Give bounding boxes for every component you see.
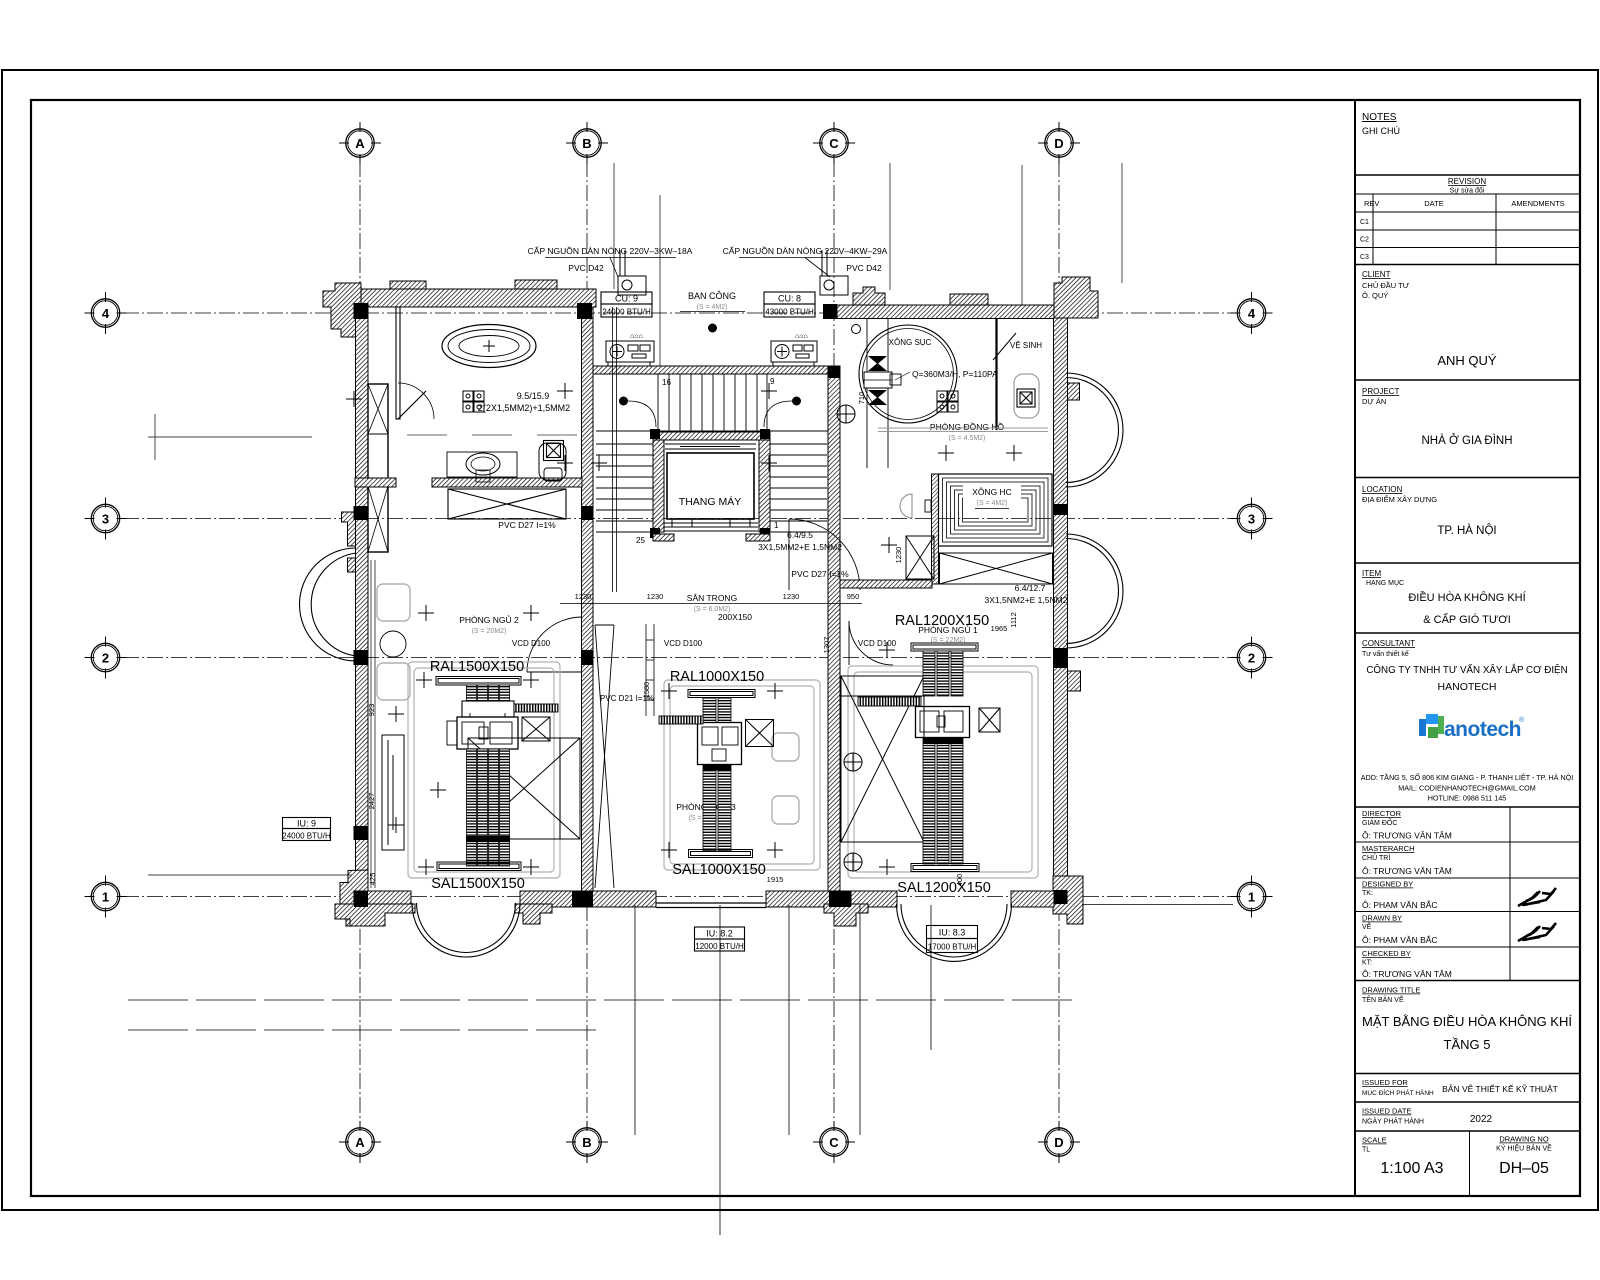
bathtub	[442, 325, 536, 368]
svg-text:PVC D27 I=1%: PVC D27 I=1%	[791, 569, 849, 579]
sink	[466, 453, 500, 475]
axis 4 line	[123, 312, 1233, 314]
elevator corner nodes	[650, 429, 660, 439]
bed room1	[468, 738, 580, 839]
vanity counter	[447, 452, 517, 477]
svg-text:710: 710	[857, 392, 866, 405]
axis C bottom bubble	[813, 1121, 855, 1163]
bottom wall seg1	[354, 891, 411, 907]
coil room left wall	[932, 474, 939, 584]
svg-text:B: B	[582, 136, 591, 151]
svg-text:1230: 1230	[575, 592, 592, 601]
bottom moulding 3	[824, 904, 868, 926]
bottom wall seg5	[1011, 891, 1054, 907]
svg-text:Ô: TRƯƠNG VĂN TÂM: Ô: TRƯƠNG VĂN TÂM	[1362, 866, 1452, 876]
condenser unit right	[771, 341, 817, 366]
unit2 dark band	[703, 765, 731, 771]
node A-mid	[354, 826, 369, 840]
svg-text:D: D	[1054, 136, 1063, 151]
wc door	[993, 333, 1016, 360]
xbox right wide	[940, 553, 1053, 584]
riser lines corridor	[646, 624, 654, 716]
stair top band	[593, 366, 828, 374]
bottom wall seg4	[851, 891, 897, 907]
corridor X brace	[595, 625, 614, 888]
unit2 bottom grille	[689, 850, 753, 858]
svg-text:VỆ SINH: VỆ SINH	[1010, 341, 1042, 350]
svg-text:SÂN TRONG: SÂN TRONG	[687, 593, 737, 603]
bottom moulding 1	[335, 904, 415, 926]
unit1 dark band	[466, 836, 510, 842]
left wall	[356, 307, 369, 891]
gray dims rotated	[367, 392, 1018, 887]
svg-text:1580: 1580	[642, 682, 651, 699]
svg-text:ĐỊA ĐIỂM XÂY DỰNG: ĐỊA ĐIỂM XÂY DỰNG	[1362, 495, 1437, 504]
left balcony arc	[300, 548, 357, 661]
svg-text:CU: 8: CU: 8	[778, 294, 801, 304]
right balcony arc lower	[1066, 534, 1123, 648]
dim line y1000	[128, 999, 1078, 1001]
svg-text:THANG MÁY: THANG MÁY	[679, 495, 741, 508]
svg-text:25: 25	[636, 536, 645, 545]
svg-text:A: A	[355, 1135, 365, 1150]
svg-text:PVC D42: PVC D42	[846, 263, 882, 273]
bottom wall seg2	[520, 891, 656, 907]
svg-text:IU: 8.3: IU: 8.3	[939, 928, 966, 938]
svg-text:425: 425	[368, 873, 377, 886]
IU83 box	[927, 926, 978, 953]
svg-text:6.4/9.5: 6.4/9.5	[787, 530, 813, 540]
axis C line	[833, 161, 835, 1124]
svg-text:1112: 1112	[1009, 612, 1018, 628]
svg-text:DH–05: DH–05	[1499, 1160, 1549, 1177]
ceiling dot stair left	[619, 397, 628, 406]
svg-text:IU: 8.2: IU: 8.2	[706, 929, 733, 939]
svg-text:1: 1	[774, 521, 779, 530]
svg-text:XÔNG SỤC: XÔNG SỤC	[889, 338, 932, 347]
svg-text:NOTES: NOTES	[1362, 112, 1397, 123]
svg-text:A: A	[355, 136, 365, 151]
sofa gray room1 b	[377, 663, 410, 700]
svg-text:Tư vấn thiết kế: Tư vấn thiết kế	[1362, 649, 1409, 658]
svg-text:SCALE: SCALE	[1362, 1136, 1387, 1145]
room1 carpet	[408, 662, 560, 878]
unit3 bottom grille	[911, 864, 979, 872]
node A3	[354, 506, 369, 520]
left wall moulding mid	[342, 512, 356, 546]
unit1 top grille	[436, 677, 521, 686]
svg-text:Ô. QUÝ: Ô. QUÝ	[1362, 291, 1388, 300]
svg-text:HANOTECH: HANOTECH	[1438, 681, 1497, 693]
axis D bottom bubble	[1038, 1121, 1080, 1163]
svg-text:24000 BTU/H: 24000 BTU/H	[282, 832, 331, 841]
designed signature	[1518, 888, 1556, 906]
svg-text:B: B	[582, 1135, 591, 1150]
bathroom inner band	[355, 478, 396, 487]
svg-text:923: 923	[367, 704, 376, 717]
toilet top-left	[539, 443, 566, 480]
svg-text:3: 3	[1248, 511, 1255, 526]
svg-text:CLIENT: CLIENT	[1362, 270, 1391, 279]
right wall bump 2	[1068, 671, 1081, 691]
unit1 bottom grille	[437, 862, 521, 871]
svg-text:1307: 1307	[822, 637, 831, 654]
svg-text:400: 400	[955, 874, 964, 887]
shaft wall left	[368, 384, 388, 552]
axis B line	[586, 161, 588, 1124]
bottom wall seg3	[766, 891, 851, 907]
unit1 upper tubes	[467, 685, 510, 701]
svg-text:DATE: DATE	[1424, 199, 1443, 208]
axis 3 line	[123, 518, 1233, 520]
bottom-left corner moulding	[335, 870, 368, 926]
right wall face extension	[1082, 904, 1233, 906]
outlet 4sq bath1	[463, 391, 484, 412]
svg-text:TP. HÀ NỘI: TP. HÀ NỘI	[1437, 524, 1496, 537]
ceiling dot balcony	[708, 324, 717, 333]
svg-text:BAN CÔNG: BAN CÔNG	[688, 291, 736, 301]
unit2 duct left	[659, 716, 703, 724]
left dim segment	[148, 414, 352, 875]
elevator shaft top band	[653, 432, 770, 440]
door arc stair-corridor	[789, 519, 860, 590]
unit1 xbox	[522, 717, 550, 741]
svg-text:GHI CHÚ: GHI CHÚ	[1362, 126, 1400, 136]
node C1	[829, 891, 851, 907]
svg-text:3: 3	[102, 511, 109, 526]
dim verticals below plan	[635, 905, 931, 1235]
axis C top bubble	[813, 122, 855, 164]
svg-text:TK:: TK:	[1362, 890, 1373, 897]
svg-text:ĐIỀU HÒA KHÔNG KHÍ: ĐIỀU HÒA KHÔNG KHÍ	[1408, 591, 1526, 604]
stair right flight	[770, 444, 827, 532]
axis 3 right bubble	[1231, 498, 1273, 540]
sink right	[900, 494, 912, 518]
svg-text:LOCATION: LOCATION	[1362, 485, 1403, 494]
title block frame	[1355, 100, 1580, 1196]
node B2	[582, 650, 594, 665]
bottom moulding 2	[515, 904, 552, 924]
fan symbol	[868, 356, 887, 405]
svg-text:2: 2	[102, 650, 109, 665]
svg-text:4: 4	[102, 306, 110, 321]
fan duct vertical	[867, 318, 888, 468]
unit3 fcu	[916, 707, 970, 738]
top-right corner moulding	[1054, 277, 1098, 318]
svg-text:950: 950	[847, 592, 860, 601]
node D4	[823, 304, 837, 319]
IU82 box	[695, 927, 745, 951]
svg-text:PVC D27 I=1%: PVC D27 I=1%	[498, 520, 556, 530]
top dim verticals	[614, 163, 1122, 366]
unit2 lower tubes	[703, 765, 731, 851]
svg-text:1965: 1965	[991, 624, 1008, 633]
svg-text:1915: 1915	[767, 875, 784, 884]
elevator car	[667, 453, 754, 519]
svg-text:3X1,5MM2+E 1,5NM2: 3X1,5MM2+E 1,5NM2	[758, 542, 842, 552]
node B4	[577, 303, 592, 319]
unit3 xbox	[979, 708, 1000, 732]
node A4	[354, 303, 369, 319]
svg-text:DESIGNED BY: DESIGNED BY	[1362, 880, 1413, 889]
svg-text:2022: 2022	[1470, 1114, 1493, 1125]
sofa gray room2 a	[772, 733, 799, 761]
svg-text:REV: REV	[1364, 199, 1379, 208]
svg-text:2(2X1,5MM2)+1,5MM2: 2(2X1,5MM2)+1,5MM2	[478, 403, 570, 413]
svg-text:ITEM: ITEM	[1362, 569, 1381, 578]
svg-text:RAL1000X150: RAL1000X150	[670, 669, 764, 685]
svg-text:DRAWN BY: DRAWN BY	[1362, 914, 1402, 923]
axis B top bubble	[566, 122, 608, 164]
unit1 collar	[462, 701, 514, 717]
IU9 box	[283, 818, 331, 841]
counter gray lines	[878, 428, 1048, 432]
axis A line	[359, 161, 361, 1124]
elevator shaft left wall	[653, 440, 664, 532]
svg-text:Ô: TRƯƠNG VĂN TÂM: Ô: TRƯƠNG VĂN TÂM	[1362, 969, 1452, 979]
stair left flight	[596, 444, 653, 532]
room3 carpet	[848, 666, 1038, 878]
bottom-right corner moulding	[1053, 876, 1083, 924]
dim line bottom court	[560, 603, 862, 605]
elevator door	[664, 519, 758, 531]
svg-text:⌂⌂⌂: ⌂⌂⌂	[630, 333, 643, 340]
svg-text:SAL1500X150: SAL1500X150	[431, 876, 525, 892]
svg-text:4: 4	[1248, 306, 1256, 321]
node D1	[1054, 890, 1068, 904]
svg-text:Sự sửa đổi: Sự sửa đổi	[1450, 187, 1485, 195]
CU:9 box	[601, 292, 652, 317]
wall top bump 2	[515, 280, 557, 289]
right balcony arc upper	[1066, 373, 1123, 487]
leader stair left	[628, 401, 656, 427]
svg-text:C: C	[829, 136, 839, 151]
unit3 upper tubes	[923, 651, 963, 696]
node D3	[1054, 504, 1068, 515]
svg-text:1230: 1230	[647, 592, 664, 601]
sofa gray room2 b	[772, 796, 799, 824]
svg-text:VẼ: VẼ	[1362, 922, 1372, 931]
svg-text:CHỦ TRÌ: CHỦ TRÌ	[1362, 853, 1390, 862]
svg-text:SAL1000X150: SAL1000X150	[672, 862, 766, 878]
wall top bump 1	[390, 281, 426, 289]
bottom balcony arc left	[412, 903, 520, 957]
unit2 top grille	[688, 690, 755, 698]
svg-text:MAIL: CODIENHANOTECH@GMAIL.COM: MAIL: CODIENHANOTECH@GMAIL.COM	[1398, 784, 1535, 793]
diffuser circle a	[844, 753, 862, 771]
floor drain right	[1017, 389, 1035, 407]
stair upper treads	[596, 374, 828, 431]
top-right bump 1	[853, 287, 885, 305]
room2 carpet	[664, 680, 820, 870]
unit3 duct left	[858, 697, 921, 706]
svg-text:VCD D100: VCD D100	[858, 639, 897, 648]
node A1	[354, 891, 368, 907]
svg-text:Q=360M3/H, P=110PA: Q=360M3/H, P=110PA	[912, 369, 998, 379]
unit3 top grille	[911, 643, 978, 651]
svg-text:AMENDMENTS: AMENDMENTS	[1511, 199, 1564, 208]
axis 1 left bubble	[85, 876, 127, 918]
unit2 xbox	[746, 720, 774, 747]
svg-text:RAL1200X150: RAL1200X150	[895, 613, 989, 629]
svg-text:⌂⌂⌂: ⌂⌂⌂	[795, 333, 808, 340]
svg-text:CÔNG TY TNHH TƯ VẤN XÂY LẮP CƠ: CÔNG TY TNHH TƯ VẤN XÂY LẮP CƠ ĐIỆN	[1366, 665, 1567, 676]
svg-text:Ô: PHẠM VĂN BẮC: Ô: PHẠM VĂN BẮC	[1362, 935, 1438, 945]
unit3 lower tubes	[923, 738, 963, 864]
svg-text:9.5/15.9: 9.5/15.9	[517, 391, 550, 401]
bottom balcony arc right	[897, 904, 1012, 961]
svg-text:MỤC ĐÍCH PHÁT HÀNH: MỤC ĐÍCH PHÁT HÀNH	[1362, 1088, 1434, 1097]
svg-text:17000 BTU/H: 17000 BTU/H	[928, 943, 977, 952]
svg-text:ISSUED DATE: ISSUED DATE	[1362, 1107, 1411, 1116]
axis 3 left bubble	[85, 498, 127, 540]
right wall bump 1	[1068, 383, 1080, 400]
left wall lower moulding	[348, 558, 356, 572]
CU:8 box	[764, 292, 815, 317]
svg-text:MẶT BẰNG ĐIỀU HÒA KHÔNG KHÍ: MẶT BẰNG ĐIỀU HÒA KHÔNG KHÍ	[1362, 1014, 1572, 1029]
axis 4 left bubble	[85, 292, 127, 334]
svg-text:Ô: PHẠM VĂN BẮC: Ô: PHẠM VĂN BẮC	[1362, 900, 1438, 910]
axis 1 right bubble	[1231, 876, 1273, 918]
axis B bottom bubble	[566, 1121, 608, 1163]
unit1 fcu	[447, 713, 518, 749]
svg-text:D: D	[1054, 1135, 1063, 1150]
bathroom door leaf	[398, 391, 426, 419]
node A2	[354, 650, 369, 665]
svg-text:IU: 9: IU: 9	[297, 819, 316, 829]
wall top-left band	[339, 289, 596, 307]
svg-text:3X1,5NM2+E 1,5NM2: 3X1,5NM2+E 1,5NM2	[985, 595, 1068, 605]
svg-text:C1: C1	[1360, 219, 1369, 226]
svg-text:CHỦ ĐẦU TƯ: CHỦ ĐẦU TƯ	[1362, 280, 1410, 290]
unit1 lower tubes	[467, 749, 510, 866]
axis 4 right bubble	[1231, 292, 1273, 334]
svg-text:DIRECTOR: DIRECTOR	[1362, 809, 1402, 818]
small circle top right	[852, 325, 861, 334]
sofa gray room1 a	[377, 584, 410, 621]
svg-text:200X150: 200X150	[718, 612, 752, 622]
svg-text:16: 16	[662, 378, 671, 387]
duct xbox bath1	[448, 489, 566, 519]
bottom window lines	[656, 902, 766, 904]
svg-text:9: 9	[770, 377, 775, 386]
svg-text:NGÀY PHÁT HÀNH: NGÀY PHÁT HÀNH	[1362, 1117, 1424, 1126]
dim line y1030	[128, 1029, 600, 1031]
unit2 fcu	[698, 723, 742, 765]
axis 1 line	[123, 896, 1233, 898]
svg-text:CHECKED BY: CHECKED BY	[1362, 949, 1411, 958]
svg-text:KT:: KT:	[1362, 960, 1372, 967]
door arc bedroom3	[849, 621, 893, 665]
diffuser circle c	[837, 405, 855, 423]
svg-text:PHÒNG NGỦ 2: PHÒNG NGỦ 2	[459, 614, 519, 625]
svg-text:TL: TL	[1362, 1147, 1370, 1154]
lamp room1	[380, 631, 406, 657]
svg-text:(S = 4M2): (S = 4M2)	[697, 304, 728, 311]
floor drain bath1	[544, 441, 564, 461]
top-right band	[837, 305, 1054, 319]
toilet right	[1014, 374, 1039, 418]
svg-text:1230: 1230	[783, 592, 800, 601]
right wall	[1054, 318, 1068, 898]
axis D top bubble	[1038, 122, 1080, 164]
riser pair bathroom	[613, 307, 617, 592]
axis A bottom bubble	[339, 1121, 381, 1163]
top-right bump 2	[950, 294, 988, 305]
node D2	[1054, 648, 1068, 668]
svg-text:C2: C2	[1360, 237, 1369, 244]
wall top-left corner moulding	[323, 283, 361, 337]
svg-text:SAL1200X150: SAL1200X150	[897, 880, 991, 896]
svg-text:1: 1	[1248, 889, 1255, 904]
bed room3	[841, 676, 924, 842]
node B3	[582, 506, 594, 520]
axis 2 left bubble	[85, 637, 127, 679]
svg-text:C: C	[829, 1135, 839, 1150]
svg-text:NHÀ Ở GIA ĐÌNH: NHÀ Ở GIA ĐÌNH	[1421, 434, 1512, 447]
svg-text:C3: C3	[1360, 254, 1369, 261]
svg-text:DỰ ÁN: DỰ ÁN	[1362, 397, 1386, 406]
svg-text:REVISION: REVISION	[1448, 177, 1486, 186]
svg-text:HẠNG MỤC: HẠNG MỤC	[1366, 580, 1404, 587]
svg-text:TÊN BẢN VẼ: TÊN BẢN VẼ	[1362, 995, 1404, 1004]
xbox right small	[906, 536, 934, 579]
elevator shaft right wall	[759, 440, 770, 532]
hanotech logo	[1419, 714, 1525, 741]
svg-text:& CẤP GIÓ TƯƠI: & CẤP GIÓ TƯƠI	[1423, 613, 1511, 626]
svg-text:CU: 9: CU: 9	[615, 294, 638, 304]
svg-text:2: 2	[1248, 650, 1255, 665]
svg-text:HOTLINE: 0988 511 145: HOTLINE: 0988 511 145	[1428, 794, 1507, 803]
svg-text:PROJECT: PROJECT	[1362, 387, 1399, 396]
plus markers	[346, 383, 1022, 875]
axis 2 right bubble	[1231, 637, 1273, 679]
svg-text:TẦNG 5: TẦNG 5	[1444, 1037, 1491, 1052]
elevator bottom band	[653, 534, 674, 541]
svg-text:VCD D100: VCD D100	[512, 639, 551, 648]
drawn signature	[1518, 923, 1556, 941]
svg-text:BẢN VẼ THIẾT KẾ KỸ THUẬT: BẢN VẼ THIẾT KẾ KỸ THUẬT	[1442, 1083, 1558, 1094]
gray dims 1230	[575, 592, 1008, 884]
svg-text:CẤP NGUỒN DÀN NÓNG 220V–4KW–29: CẤP NGUỒN DÀN NÓNG 220V–4KW–29A	[723, 245, 888, 256]
diffuser circle b	[844, 853, 862, 871]
vanity gray lines	[407, 434, 577, 436]
svg-text:®: ®	[1519, 716, 1525, 724]
door arc bedroom1	[527, 617, 582, 672]
unit1 duct right	[514, 704, 558, 712]
big duct circle	[859, 325, 957, 423]
svg-text:1230: 1230	[894, 547, 903, 564]
wardrobe room1	[382, 735, 404, 850]
svg-text:1: 1	[102, 889, 109, 904]
svg-text:CONSULTANT: CONSULTANT	[1362, 639, 1415, 648]
svg-text:PHÒNG ĐỒNG HỒ: PHÒNG ĐỒNG HỒ	[930, 421, 1005, 432]
leader stair right	[764, 401, 792, 427]
node C4-stair	[828, 366, 840, 378]
svg-text:ISSUED FOR: ISSUED FOR	[1362, 1078, 1408, 1087]
svg-text:43000 BTU/H: 43000 BTU/H	[765, 308, 814, 317]
wc partition	[995, 318, 997, 430]
band below xong	[840, 580, 932, 588]
ceiling dot stair right	[792, 397, 801, 406]
coil room nested	[939, 474, 1053, 546]
svg-text:MASTERARCH: MASTERARCH	[1362, 844, 1415, 853]
svg-text:Ô: TRƯƠNG VĂN TÂM: Ô: TRƯƠNG VĂN TÂM	[1362, 831, 1452, 841]
svg-text:(S = 20M2): (S = 20M2)	[472, 628, 507, 635]
svg-text:XÔNG HC: XÔNG HC	[972, 487, 1012, 497]
svg-text:(S = 4.5M2): (S = 4.5M2)	[949, 435, 986, 442]
svg-text:24000 BTU/H: 24000 BTU/H	[602, 308, 651, 317]
